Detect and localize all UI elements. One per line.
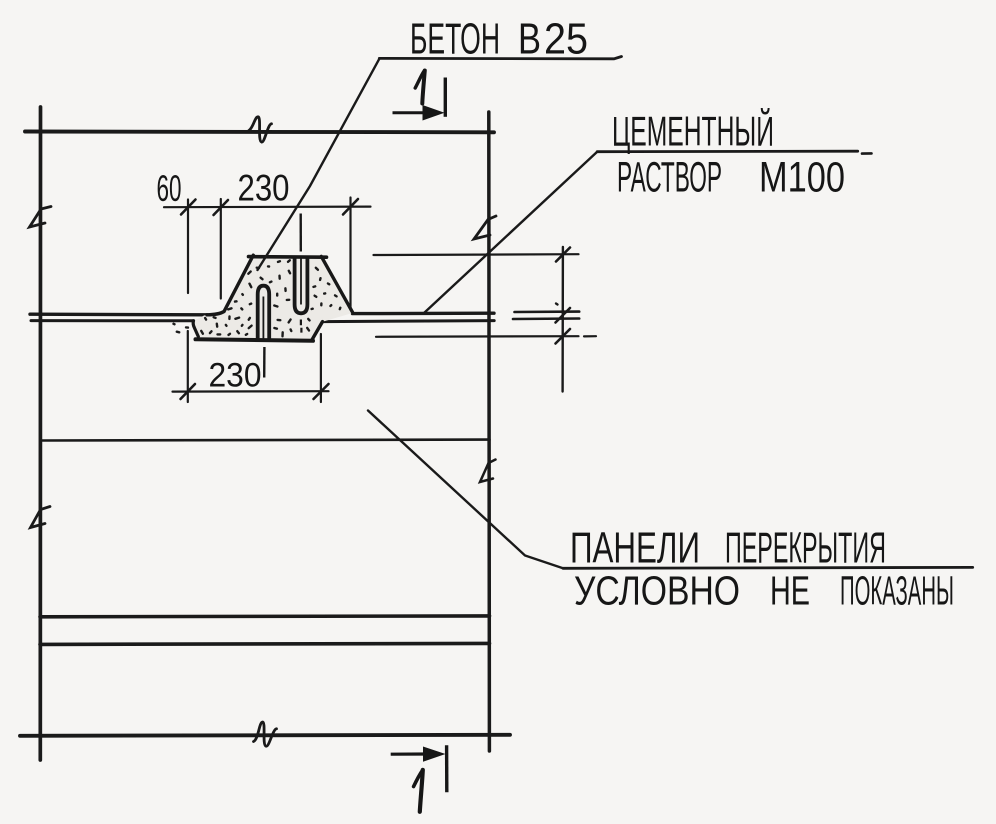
- tick bottom-right: [314, 384, 329, 399]
- svg-text:БЕТОН: БЕТОН: [410, 15, 500, 64]
- section mark top: digit 1: [422, 71, 425, 104]
- extension line right: [320, 334, 322, 402]
- tick at 230 right: [343, 199, 358, 215]
- svg-text:М100: М100: [759, 154, 845, 202]
- wall mid horizontal line: [41, 438, 490, 441]
- break symbol on top line: [249, 117, 272, 142]
- top dimension line: [164, 198, 371, 310]
- svg-text:ЦЕМЕНТНЫЙ: ЦЕМЕНТНЫЙ: [612, 107, 774, 155]
- tick slab level: [556, 308, 571, 323]
- break symbol on right wall upper: [474, 216, 496, 239]
- svg-text:ПАНЕЛИ: ПАНЕЛИ: [570, 524, 700, 573]
- svg-text:25: 25: [544, 15, 588, 64]
- key left slope: [207, 255, 253, 315]
- mortar top level line: [374, 253, 579, 256]
- underline for mortar label: [597, 150, 858, 153]
- right channel axis above key: [300, 214, 302, 252]
- section mark bottom: cut plane line: [445, 745, 449, 792]
- concrete stipple texture: [174, 260, 341, 336]
- svg-text:230: 230: [209, 357, 262, 395]
- section mark top: arrow shaft: [393, 111, 429, 114]
- section mark bottom: arrow shaft: [391, 745, 447, 792]
- concrete key (joint): [193, 255, 352, 341]
- wall left edge line: [38, 107, 42, 760]
- tick at 60 right / 230 left: [214, 200, 229, 215]
- left channel centre line: [262, 297, 264, 341]
- slab level short line upper: [515, 310, 580, 313]
- svg-text:ПОКАЗАНЫ: ПОКАЗАНЫ: [840, 568, 954, 614]
- slab top line right of key: [353, 312, 495, 316]
- slab level short line lower: [513, 317, 579, 320]
- tick at 60 left: [181, 200, 196, 215]
- section mark bottom: digit 1: [420, 770, 423, 812]
- svg-text:230: 230: [238, 168, 290, 209]
- svg-text:60: 60: [157, 168, 182, 209]
- bottom dimension line: [173, 331, 329, 402]
- left channel loop (inverted U): [258, 286, 270, 378]
- svg-text:РАСТВОР: РАСТВОР: [617, 154, 722, 202]
- svg-text:НЕ: НЕ: [770, 568, 810, 614]
- dash after mortar underline: [862, 152, 872, 155]
- leader line for concrete label: [258, 58, 380, 270]
- key top edge: [249, 255, 327, 259]
- tick bottom-left: [181, 384, 196, 399]
- slab lower line left of key: [31, 319, 194, 322]
- section mark bottom: arrowhead: [423, 747, 446, 762]
- dash right of joint bottom tick: [584, 335, 596, 337]
- wall lower horizontal line 1: [40, 614, 490, 618]
- tick joint bottom: [556, 329, 571, 344]
- break symbol on bottom line: [254, 722, 277, 746]
- concrete key fill tone: [194, 257, 353, 341]
- break symbol on right wall lower: [480, 460, 496, 483]
- svg-text:В: В: [518, 15, 541, 64]
- extension line left: [187, 331, 189, 402]
- right channel loop (U open to top): [295, 214, 308, 333]
- underline for concrete label: [379, 57, 621, 59]
- svg-text:УСЛОВНО: УСЛОВНО: [574, 568, 740, 614]
- vertical dimension line: [561, 247, 564, 392]
- right channel centre line: [300, 256, 302, 305]
- wall right edge line: [487, 112, 491, 751]
- key lower-left drop: [193, 321, 198, 337]
- extension line right (230): [349, 198, 351, 310]
- tick mortar top: [556, 248, 570, 262]
- wall bottom line: [20, 735, 510, 736]
- key right slope: [321, 256, 352, 312]
- extension line left (60): [187, 200, 189, 294]
- svg-text:ПЕРЕКРЫТИЯ: ПЕРЕКРЫТИЯ: [725, 524, 886, 573]
- leader line for mortar label: [424, 152, 597, 313]
- right side level lines and dimension: [374, 247, 597, 392]
- leader line for panels note: [368, 411, 563, 569]
- slab lower line right of key: [323, 321, 495, 322]
- right channel axis dashes below: [300, 320, 303, 333]
- break symbol on left wall upper: [30, 207, 52, 228]
- key bottom edge: [196, 339, 314, 341]
- key lower-right slope: [312, 322, 323, 341]
- joint bottom level line: [376, 335, 579, 338]
- extension line mid: [220, 199, 222, 299]
- underline for panels note: [563, 566, 973, 570]
- small dot above slab tick: [556, 304, 558, 305]
- wall lower horizontal line 2: [40, 643, 490, 644]
- wall top line: [25, 130, 494, 135]
- break symbol on left wall lower: [31, 507, 51, 528]
- left channel axis below key: [263, 347, 266, 378]
- section mark top: cut plane line: [444, 78, 447, 117]
- section mark top: arrowhead: [423, 105, 445, 121]
- slab top line left of key: [30, 313, 207, 317]
